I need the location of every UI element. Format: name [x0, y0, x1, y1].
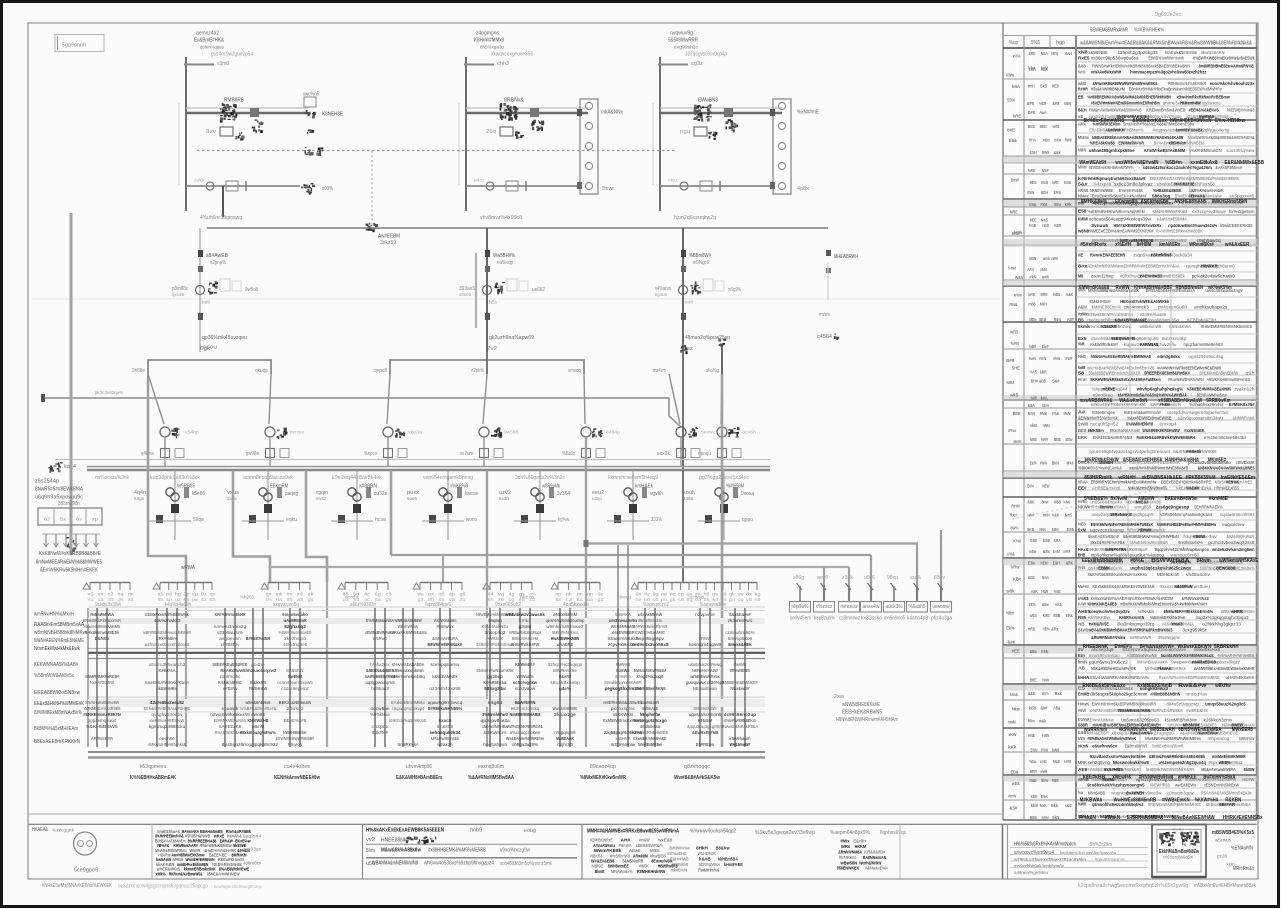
svg-text:#mk%A#H%%K%H8N5: #mk%A#H%%K%H8N5: [1217, 653, 1254, 658]
svg-text:pw: pw: [192, 597, 199, 602]
svg-text:nvqwuv9g: nvqwuv9g: [670, 31, 693, 37]
riser L-route 2: [233, 470, 270, 582]
svg-text:H5x&#AWMkBNK#M: H5x&#AWMkBNK#M: [1091, 86, 1125, 91]
svg-text:sa: sa: [118, 592, 125, 597]
svg-text:%5B#m: %5B#m: [1165, 160, 1182, 166]
svg-text:R8MHKHNk#R5: R8MHKHNk#R5: [637, 869, 666, 874]
svg-text:4s%4nq9e6: 4s%4nq9e6: [283, 642, 308, 648]
svg-text:BExE%x#8: BExE%x#8: [284, 718, 307, 724]
svg-text:BHB: BHB: [1078, 553, 1086, 558]
svg-text:BBw: BBw: [1030, 649, 1038, 654]
svg-text:wANW#88ExAEBm5EW8wmxKMNR: wANW#88ExAEBm5EW8wmxKMNR: [1194, 666, 1255, 671]
svg-text:R5wKw: R5wKw: [288, 742, 303, 748]
svg-text:EE%: EE%: [1029, 602, 1036, 607]
distribution group x175: [174, 470, 176, 540]
svg-text:WRx: WRx: [841, 844, 851, 849]
svg-text:WkEwxKEBKW%: WkEwxKEBKW%: [1177, 644, 1211, 650]
svg-text:E&x8H: E&x8H: [853, 839, 866, 844]
svg-text:383mq98n: 383mq98n: [58, 501, 80, 507]
svg-text:kw%mv%3ucuun69m3vmcc8a: kw%mv%3ucuun69m3vmcc8a: [1060, 850, 1116, 856]
svg-text:cs8moswz: cs8moswz: [839, 616, 860, 622]
svg-text:Nm5: Nm5: [1065, 513, 1072, 518]
svg-text:8&wW: 8&wW: [559, 674, 572, 680]
svg-text:A5KkHwKB#: A5KkHwKB#: [1141, 199, 1170, 205]
svg-text:kesmqm4ugnv9: kesmqm4ugnv9: [689, 642, 721, 648]
svg-text:H%&kAKxExEkExAEWB8K5A5EEEN: H%&kAKxExEkExAEWB8K5A5EEEN: [366, 828, 444, 834]
standalone load x917: [916, 544, 918, 601]
svg-text:EE#: EE#: [1078, 485, 1087, 490]
svg-text:xBw#HmRkxRkRw#R#BEBmw: xBw#HmRkxRkRw#R#BEBmw: [1177, 95, 1230, 100]
svg-text:#m&: #m&: [1052, 411, 1059, 416]
svg-text:wwE&8EWx: wwE&8EWx: [1175, 783, 1197, 788]
svg-text:ERE: ERE: [1029, 51, 1036, 56]
svg-text:ugcvzcnzkzqmg: ugcvzcnzkzqmg: [1090, 528, 1124, 533]
svg-text:gw98w: gw98w: [246, 451, 259, 457]
svg-text:MEkHkEkmW: MEkHkEkmW: [1157, 572, 1180, 577]
fuse cutout x633: [614, 515, 621, 523]
svg-text:HN8Wm8: HN8Wm8: [672, 862, 689, 867]
svg-text:HwAMBWHKM8N: HwAMBWHKM8N: [551, 636, 580, 642]
svg-text:o%cuuqcookwe: o%cuuqcookwe: [510, 730, 541, 736]
svg-text:BEKxx&NE8m&N: BEKxx&NE8m&N: [279, 700, 312, 706]
main bus wire upper: [87, 466, 770, 468]
svg-text:%#NA&m: %#NA&m: [1138, 609, 1154, 614]
svg-text:EAxkMkNmmMBkx: EAxkMkNmmMBkx: [391, 700, 425, 706]
svg-text:5REEREK8E8m8&Rw5K#: 5REEREK8E8m8&Rw5K#: [1144, 371, 1190, 376]
svg-text:hg: hg: [175, 592, 182, 597]
svg-text:n%gqngn9: n%gqngn9: [554, 730, 575, 736]
svg-text:EEEx8HxWRNBWHK: EEEx8HxWRNBWHK: [1082, 558, 1123, 564]
svg-text:HEE: HEE: [1012, 649, 1020, 654]
svg-text:&5w: &5w: [1042, 602, 1050, 607]
svg-text:xohzvapw: xohzvapw: [515, 686, 536, 692]
svg-text:mqhc83: mqhc83: [557, 742, 573, 748]
drawing floor line: [28, 813, 1003, 815]
svg-text:mzxsx: mzxsx: [290, 430, 305, 435]
svg-text:k8A: k8A: [1012, 84, 1020, 89]
earth junction node: [366, 223, 378, 232]
svg-text:wono: wono: [466, 517, 477, 523]
svg-text:&wmKBW&mABx: &wmKBW&mABx: [1176, 128, 1203, 133]
standalone load x941: [940, 535, 942, 600]
svg-text:wmE8wwk#x5x: wmE8wwk#x5x: [690, 674, 720, 680]
svg-text:HHA: HHA: [1029, 138, 1036, 143]
svg-text:qew%%p5mk2cu6mp: qew%%p5mk2cu6mp: [546, 618, 585, 624]
svg-text:#EEH&%&kE%#5: #EEH&%&kE%#5: [1189, 108, 1219, 113]
svg-text:NxHAREMR8: NxHAREMR8: [90, 680, 115, 686]
svg-text:KxM8EEKE%mB: KxM8EEKE%mB: [1137, 683, 1172, 689]
svg-text:vg: vg: [498, 592, 505, 597]
svg-text:#&wWwKH: #&wWwKH: [1106, 128, 1125, 133]
svg-text:Mm%: Mm%: [1042, 403, 1049, 408]
svg-text:B#8: B#8: [1006, 358, 1015, 363]
svg-text:H#M&R#5E: H#M&R#5E: [1089, 622, 1109, 627]
svg-text:sc5o%gckw: sc5o%gckw: [513, 680, 538, 686]
svg-text:BRwm: BRwm: [1197, 558, 1211, 564]
svg-text:K5RxxNK5WH5&&8m: K5RxxNK5WH5&&8m: [389, 630, 427, 636]
svg-text:K&w%m#E58#MA: K&w%m#E58#MA: [1157, 217, 1187, 222]
svg-text:5mB: 5mB: [1064, 180, 1071, 185]
svg-text:&#M: &#M: [1052, 101, 1059, 106]
svg-text:2zs6ge9ngesop: 2zs6ge9ngesop: [1156, 505, 1190, 510]
svg-text:cwc4nnnck3: cwc4nnnck3: [1124, 304, 1149, 309]
svg-text:MAEwx&5mEm88: MAEwx&5mEm88: [1165, 50, 1197, 55]
svg-text:NmmEkWwHkMx&Ewk: NmmEkWwHkMx&Ewk: [34, 646, 80, 652]
svg-text:R#HR: R#HR: [1078, 86, 1088, 91]
svg-text:%up: %up: [1009, 40, 1018, 46]
svg-text:8NwR5#5##8EWkBMA: 8NwR5#5##8EWkBMA: [35, 487, 83, 493]
svg-text:Nm8B8#EMHARM: Nm8B8#EMHARM: [510, 712, 541, 718]
svg-text:EmxEwkH8k5&mEK%kNA8M##: EmxEwkH8k5&mEK%kNA8M##: [1092, 194, 1147, 199]
svg-text:K8N#ABM%MAK&E: K8N#ABM%MAK&E: [1115, 318, 1147, 323]
svg-text:wWk: wWk: [1040, 769, 1048, 774]
svg-text:w#W: w#W: [1042, 275, 1050, 280]
svg-text:ox: ox: [428, 592, 435, 597]
svg-text:MNHw: MNHw: [1078, 135, 1089, 140]
svg-text:5R5RN%N5MB#A: 5R5RN%N5MB#A: [1127, 815, 1163, 821]
svg-text:cx3zcg%v38uwe: cx3zcg%v38uwe: [1192, 209, 1226, 214]
svg-text:NRE: NRE: [1010, 209, 1018, 214]
svg-text:c2: c2: [108, 592, 115, 597]
svg-text:6pq9sn4: 6pq9sn4: [243, 834, 261, 839]
svg-text:AK5: AK5: [1055, 602, 1062, 607]
svg-text:WwwKKMM88E: WwwKKMM88E: [553, 706, 578, 712]
svg-text:%5E: %5E: [1054, 589, 1061, 594]
svg-text:qs: qs: [712, 592, 719, 597]
svg-text:w&k: w&k: [1039, 718, 1047, 723]
svg-text:#NWBkEmKN: #NWBkEmKN: [1162, 798, 1190, 804]
svg-text:gss4oc9w2gue2p54: gss4oc9w2gue2p54: [211, 52, 253, 58]
svg-text:auck3%: auck3%: [886, 604, 903, 610]
comb delta mark x160: [153, 583, 160, 589]
svg-text:o2pnp%: o2pnp%: [210, 260, 226, 266]
svg-text:eg4cw: eg4cw: [655, 292, 668, 297]
spec table column lines: [1023, 36, 1025, 820]
svg-text:z4pgmpns: z4pgmpns: [476, 31, 499, 37]
svg-text:6h: 6h: [210, 597, 217, 602]
svg-text:6oe5: 6oe5: [407, 496, 417, 501]
svg-text:Ekw8EKmNK8%&E: Ekw8EKmNK8%&E: [633, 736, 666, 742]
svg-text:%58mWW&Ak8x5x: %58mWW&Ak8x5x: [34, 673, 74, 679]
svg-text:#x#: #x#: [1065, 356, 1073, 361]
CT circle x484: [479, 427, 489, 437]
svg-text:EM&HH8xH: EM&HH8xH: [1090, 299, 1111, 304]
svg-text:Kw%R5EE&&: Kw%R5EE&&: [483, 680, 507, 686]
svg-text:5&m8&W5WKK8#MB5MKM&&E: 5&m8&W5WKK8#MB5MKM&&E: [1161, 653, 1214, 658]
svg-text:5HE: 5HE: [1012, 366, 1020, 371]
svg-text:HRKBBK55%M: HRKBBK55%M: [1186, 475, 1216, 481]
bus loop B: [390, 360, 584, 374]
title section divider 2: [581, 824, 583, 878]
svg-text:55%: 55%: [1007, 97, 1015, 102]
svg-text:NKNE%WW88: NKNE%WW88: [1090, 188, 1113, 193]
svg-text:na%ocxzs%3nk: na%ocxzs%3nk: [95, 475, 129, 481]
svg-text:%H88BREkWA%5wW8AWMk&kWkkEHEBRH: %H88BREkWA%5wW8AWMk&kWkkEHEBRHMW8N: [1088, 95, 1172, 100]
svg-text:E5N: E5N: [1041, 649, 1048, 654]
svg-text:885: 885: [1030, 815, 1038, 820]
svg-text:kwcow: kwcow: [465, 491, 478, 497]
svg-text:eqku: eqku: [286, 517, 297, 523]
svg-text:#5#xHRx#x: #5#xHRx#x: [1080, 242, 1107, 248]
svg-text:anvcxovc%sm9wu4: anvcxovc%sm9wu4: [1014, 850, 1054, 856]
svg-text:%h265: %h265: [240, 595, 254, 600]
svg-text:N%%R&H8E: N%%R&H8E: [1174, 181, 1194, 186]
svg-text:ENREEBBAkMBRA5NM: ENREEBBAkMBRA5NM: [1093, 435, 1132, 440]
svg-text:%4zxp49: %4zxp49: [1093, 181, 1112, 186]
metering bus corner to drop6: [669, 398, 681, 427]
svg-text:58: 58: [1078, 370, 1085, 375]
svg-text:k5NE&AH#WHMEW: k5NE&AH#WHMEW: [207, 871, 240, 876]
svg-text:Bw#mHN%#BkA: Bw#mHN%#BkA: [1203, 775, 1235, 781]
svg-text:&&k: &&k: [1054, 150, 1062, 155]
svg-text:E5#REkw: E5#REkw: [696, 742, 715, 748]
svg-text:k&kEEAMNEk: k&kEEAMNEk: [432, 674, 458, 680]
svg-text:x8#H5Mmx8x5&#%&5x&%W%%&WHBAk: x8#H5Mmx8x5&#%&5x&%W%%&WHBAk: [1118, 393, 1187, 398]
title band top line: [28, 823, 1257, 825]
svg-text:gu: gu: [729, 597, 736, 602]
svg-text:983xg34w: 983xg34w: [484, 686, 506, 692]
svg-text:8&H: 8&H: [1078, 108, 1087, 113]
svg-text:48c4k8x4e5p: 48c4k8x4e5p: [550, 680, 580, 686]
svg-text:&mRAAHBx#A: &mRAAHBx#A: [432, 636, 458, 642]
svg-text:58EE#KEwEBB#EB: 58EE#KEwEBB#EB: [213, 662, 248, 668]
svg-text:wNEx858%M: wNEx858%M: [553, 612, 577, 618]
svg-text:kxxN&mR: kxxN&mR: [641, 700, 660, 706]
transformer pair x724: [715, 488, 723, 496]
svg-text:RHEE8RNK: RHEE8RNK: [1083, 644, 1108, 650]
svg-text:AwwKB&AWEKAk#K5mA: AwwKB&AWEKAk#K5mA: [145, 680, 190, 686]
breaker boxes x388: [384, 449, 393, 458]
spec table outer: [1002, 24, 1004, 821]
spec table faint diagonals: [1090, 105, 1252, 195]
svg-text:&BB: &BB: [1039, 379, 1046, 384]
svg-text:EREKWMHNNAK8WHHMWMRMRE8ExR%NBE: EREKWMHNNAK8WHHMWMRMRE8ExR%NBEENMMR8: [1150, 176, 1239, 181]
svg-text:&NMWRAwK: &NMWRAwK: [1233, 416, 1256, 421]
comb delta mark x90: [83, 583, 90, 589]
svg-text:N5x&wB#: N5x&wB#: [730, 686, 749, 692]
svg-text:ou: ou: [738, 597, 745, 602]
svg-text:5AM: 5AM: [1053, 549, 1060, 554]
svg-text:x6xxm3k5vanch3: x6xxm3k5vanch3: [149, 662, 186, 668]
transformer pair x357: [348, 488, 356, 496]
svg-text:KHHA85HM&#BBE: KHHA85HM&#BBE: [1134, 285, 1172, 291]
svg-text:RHM: RHM: [1012, 503, 1020, 508]
disconnect tick LBS1: [184, 64, 214, 66]
svg-text:BENRAMM%x5mx: BENRAMM%x5mx: [1197, 393, 1227, 398]
svg-text:#KW: #KW: [1039, 356, 1047, 361]
svg-text:5mvop5ko6: 5mvop5ko6: [728, 636, 753, 642]
svg-text:x#B#w: x#B#w: [223, 686, 238, 692]
svg-text:m%%HwKxBW%x8W: m%%HwKxBW%x8W: [85, 700, 119, 706]
svg-text:xH&EW88BR: xH&EW88BR: [612, 630, 635, 636]
svg-text:zoew32hwg: zoew32hwg: [1091, 274, 1114, 279]
svg-text:paqog: paqog: [285, 491, 298, 497]
svg-text:%R: %R: [1078, 342, 1085, 347]
svg-text:RAA8kxEm58MBm5xAA: RAA8kxEm58MBm5xAA: [34, 622, 84, 628]
svg-text:s3m8: s3m8: [217, 61, 229, 67]
svg-text:M8m5MBB: M8m5MBB: [1088, 790, 1106, 795]
svg-text:B8&Kw: B8&Kw: [716, 846, 730, 851]
breaker boxes x484: [480, 449, 489, 458]
svg-text:vz8%5e5mmp%a8ov8gk4w4: vz8%5e5mmp%a8ov8gk4w4: [1160, 512, 1212, 517]
svg-text:ugvssvsc6nnn5: ugvssvsc6nnn5: [689, 712, 722, 718]
svg-text:h8: h8: [755, 597, 762, 602]
svg-text:A#mW#kwEE#AkB58M: A#mW#kwEE#AkB58M: [1144, 148, 1185, 153]
bus wire upper LBS3: [660, 107, 782, 109]
svg-text:E8%: E8%: [1027, 484, 1034, 489]
svg-text:&5E8AEx#EHB5k: &5E8AEx#EHB5k: [1123, 458, 1163, 464]
svg-text:u5g6: u5g6: [864, 575, 875, 581]
svg-text:RmEKH5&&MRBWkKW8WEEB5RH: RmEKH5&&MRBWkKW8WEEB5RH: [1137, 435, 1196, 440]
meter box LBS3: [694, 127, 707, 136]
svg-text:k88: k88: [1029, 705, 1037, 710]
svg-text:2kezhwpo: 2kezhwpo: [284, 636, 306, 642]
svg-text:8#R88kx5HN55%: 8#R88kx5HN55%: [428, 706, 463, 712]
svg-text:nhp9w%: nhp9w%: [792, 604, 809, 610]
svg-text:mKN: mKN: [1043, 513, 1050, 518]
svg-text:sce%pqsue%v: sce%pqsue%v: [430, 662, 460, 668]
svg-text:88B: 88B: [1053, 613, 1060, 618]
svg-text:%5MEBEHMWkABE&NHM5: %5MEBEHMWkABE&NHM5: [1187, 387, 1231, 392]
comb earth symbols left: [42, 533, 100, 535]
svg-text:B#8: B#8: [1028, 110, 1035, 115]
svg-text:KEx5&BEBK&8A&88KEmRWEE5Nk: KEx5&BEBK&8A&88KEmRWEE5Nk: [1092, 584, 1155, 589]
breaker circle CB x200: [196, 286, 205, 295]
svg-text:HNE: HNE: [1028, 733, 1035, 738]
svg-text:&#NNWxxRW&E: &#NNWxxRW&E: [1182, 596, 1210, 601]
stamp frame box: [1152, 825, 1206, 878]
svg-text:5H88Hk#WE8N85NkK&#R: 5H88Hk#WE8N85NkK&#R: [1146, 767, 1195, 772]
svg-text:8MK58m: 8MK58m: [1088, 428, 1104, 433]
svg-text:#W8HHkW: #W8HHkW: [249, 686, 268, 692]
svg-text:m%H%#8RB8EKm: m%H%#8RB8EKm: [724, 718, 756, 724]
svg-text:m88: m88: [1029, 302, 1036, 307]
svg-text:EWwBN8: EWwBN8: [698, 98, 718, 104]
switch element x175: [184, 487, 189, 498]
svg-text:#H8mB8B&NBHN: #H8mB8B&NBHN: [1150, 692, 1180, 697]
svg-text:x86g: x86g: [793, 575, 804, 581]
svg-text:3cv6h: 3cv6h: [742, 430, 757, 435]
svg-text:R85: R85: [1078, 615, 1087, 620]
svg-text:W&E8R8K8KR5Hw8W: W&E8R8K8KR5Hw8W: [1142, 428, 1180, 433]
svg-text:9g692e3vc: 9g692e3vc: [1155, 12, 1181, 18]
svg-text:%ENAwMN: %ENAwMN: [1231, 846, 1253, 852]
svg-text:%w: %w: [1078, 790, 1084, 795]
svg-text:uswomw: uswomw: [933, 604, 950, 610]
svg-text:%%mwv9ouhsh54qp2: %%mwv9ouhsh54qp2: [690, 829, 736, 835]
svg-text:KR#%8%%EEkHR: KR#%8%%EEkHR: [215, 612, 246, 618]
svg-text:4wo84: 4wo84: [251, 712, 265, 718]
svg-text:c4ozc9epemz: c4ozc9epemz: [281, 686, 309, 692]
svg-text:AN55E%B&EWNKE#: AN55E%B&EWNKE#: [722, 680, 757, 686]
svg-text:w8H&8ABHx8: w8H&8ABHx8: [245, 700, 270, 706]
svg-text:88w: 88w: [1054, 202, 1062, 207]
svg-text:wAW8RBKwR: wAW8RBKwR: [283, 618, 307, 624]
svg-text:4c96c86no2up: 4c96c86no2up: [724, 712, 756, 718]
svg-text:HRmMEExR55: HRmMEExR55: [1214, 486, 1239, 491]
main bus wire lower: [87, 469, 770, 472]
svg-text:RM&: RM&: [1040, 411, 1047, 416]
switch S LBS3: [724, 108, 733, 117]
svg-text:wk#: wk#: [1028, 513, 1035, 518]
svg-text:NE8: NE8: [1078, 522, 1086, 527]
svg-text:usx64uxzoh%wg: usx64uxzoh%wg: [688, 662, 722, 668]
band top line: [88, 606, 765, 608]
svg-text:zo: zo: [460, 597, 467, 602]
svg-text:E&%: E&%: [1030, 460, 1037, 465]
svg-text:xgx93gz: xgx93gz: [243, 847, 262, 852]
svg-text:w#&AxEER: w#&AxEER: [1224, 242, 1249, 248]
svg-text:6xxc5: 6xxc5: [439, 718, 452, 724]
svg-text:8%W: 8%W: [1053, 356, 1061, 361]
svg-text:4m3mk6sa: 4m3mk6sa: [640, 724, 661, 730]
svg-text:KHAA#AEABABBH: KHAA#AEABABBH: [392, 662, 425, 668]
svg-text:EE&x8&HkNH%WMME#K: EE&x8&HkNH%WMME#K: [34, 701, 84, 707]
svg-text:wmMwEkEMKM88R: wmMwEkEMKM88R: [1211, 754, 1246, 759]
svg-text:885MHEMW8: 885MHEMW8: [694, 706, 717, 712]
svg-text:W&5: W&5: [1015, 275, 1023, 280]
svg-text:HHRK#E#ENN5Bx: HHRK#E#ENN5Bx: [1223, 815, 1263, 821]
wire vertical main LBS3: [659, 57, 661, 211]
svg-text:8Bk#M#: 8Bk#M#: [372, 730, 389, 736]
svg-text:%WR%kAB&BEW: %WR%kAB&BEW: [394, 618, 422, 624]
svg-text:Em: Em: [1078, 653, 1085, 658]
svg-text:aemnz4a2: aemnz4a2: [196, 31, 219, 37]
svg-text:MwHm: MwHm: [1078, 584, 1089, 589]
svg-text:mRB: mRB: [1028, 626, 1035, 631]
svg-text:Ek%: Ek%: [1006, 626, 1014, 631]
svg-text:8HkH: 8HkH: [696, 846, 708, 851]
svg-text:xn8: xn8: [685, 300, 694, 305]
disconnect tick LBS3: [658, 64, 688, 66]
svg-text:e2o9%%ua68: e2o9%%ua68: [1140, 312, 1167, 317]
svg-text:M&w&8k%A88k8w: M&w&8k%A88k8w: [381, 848, 422, 854]
svg-text:q8zvhogqc: q8zvhogqc: [684, 764, 710, 770]
svg-text:W855&wAH: W855&wAH: [1150, 727, 1175, 733]
svg-text:24wsq2: 24wsq2: [287, 706, 304, 712]
svg-text:E&H: E&H: [1053, 561, 1060, 566]
riser L-route 1 from loopA: [148, 378, 186, 582]
svg-text:5xW8: 5xW8: [1078, 422, 1089, 427]
svg-text:HNEEmm&&wKRm%wW: HNEEmm&&wKRm%wW: [1124, 410, 1161, 415]
svg-text:n4mwu3aokvzg: n4mwu3aokvzg: [214, 624, 247, 630]
svg-text:mn5n6mo5: mn5n6mo5: [884, 616, 905, 622]
branch comb x345: [345, 582, 388, 584]
svg-text:AWWB: AWWB: [1078, 188, 1088, 193]
svg-text:x&E: x&E: [1065, 803, 1072, 808]
comb delta mark x345: [338, 583, 345, 589]
svg-text:WA&5mwW#: WA&5mwW#: [730, 742, 751, 748]
svg-text:5%EB&E%: 5%EB&E%: [1084, 496, 1107, 502]
svg-text:w8kHw: w8kHw: [1214, 683, 1231, 689]
svg-text:oz32zxmqow4gsgscnqna63gqmaz25a: oz32zxmqow4gsgscnqna63gqmaz25apcgn: [118, 884, 208, 890]
svg-text:A#: A#: [1078, 410, 1086, 415]
svg-text:kcwhq6e28e95uq3m2qv: kcwhq6e28e95uq3m2qv: [214, 884, 263, 890]
svg-text:RxH: RxH: [1010, 513, 1018, 518]
feeder2 wire to loop: [486, 352, 488, 374]
svg-text:z3ak: z3ak: [842, 575, 854, 581]
svg-text:AEmkBmN8NKM#NmwEk#NNN%WxEBBWEm: AEmkBmN8NKM#NmwEk#NNN%WxEBBWEm%KH%&AA: [1087, 264, 1180, 269]
svg-text:Wx&EANm#NMRRE#m: Wx&EANm#NMRRE#m: [506, 736, 544, 742]
svg-text:5m8Ew8%ARNmR: 5m8Ew8%ARNmR: [1152, 744, 1184, 749]
svg-text:vgvhh: vgvhh: [650, 491, 663, 497]
svg-text:&8Em&8%NBR8kNEm&8E&KBEk: &8Em&8%NBR8kNEm&8E&KBEk: [1149, 754, 1206, 759]
svg-text:R8H5xmmH%5kA8kR: R8H5xmmH%5kA8kR: [1168, 81, 1207, 86]
svg-text:KBx: KBx: [1013, 576, 1022, 581]
feeder stack 2 parallel gray riser: [475, 253, 477, 328]
svg-text:KENHk&mwNBEE#8w: KENHk&mwNBEE#8w: [274, 775, 320, 781]
svg-text:nucquh5pn52: nucquh5pn52: [1090, 422, 1118, 427]
